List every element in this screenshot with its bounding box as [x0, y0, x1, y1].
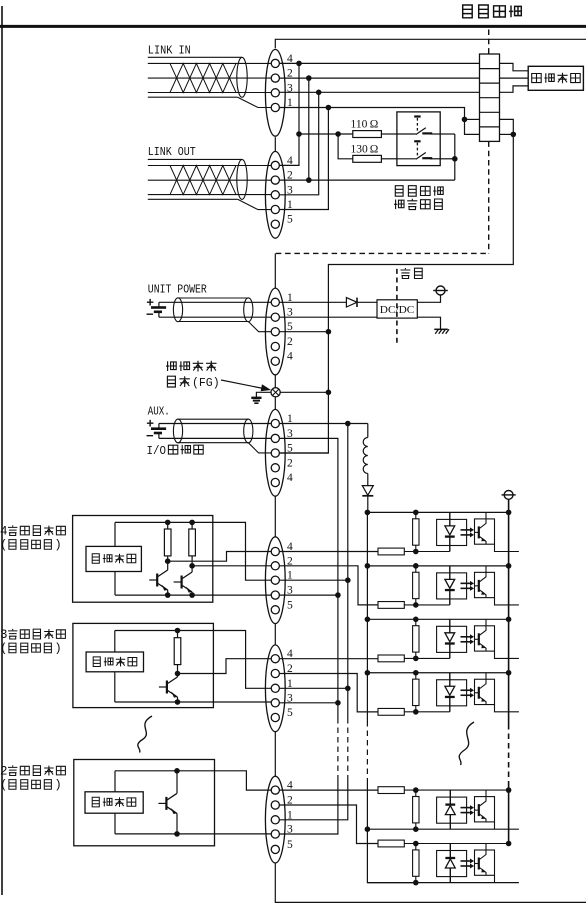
svg-text:2: 2: [0, 764, 8, 778]
optocoupler X3 light arrows: [461, 689, 471, 691]
optocoupler X0 phototransistor box: [475, 519, 495, 544]
AUX pin 3: [271, 434, 279, 442]
optocoupler X1 LED box: [437, 573, 467, 599]
sensor1 output1 wire (to pin4): [168, 552, 272, 562]
LINK IN pin 4: [271, 59, 279, 67]
svg-text:3: 3: [0, 628, 8, 642]
dashed boundary horizontal: [276, 252, 489, 254]
optocoupler X2 phototransistor box: [475, 626, 495, 651]
AUX connector body: [265, 409, 285, 496]
wire DC/DC out bottom to ground: [417, 317, 440, 329]
wire DA bus pin4: [280, 62, 480, 64]
insulation dashed line 绝缘: [396, 269, 398, 345]
break mark left: [138, 716, 152, 753]
sensor2 I/O pin 1: [271, 684, 279, 692]
emitter stub X0: [495, 544, 519, 551]
wire DB bus pin2: [280, 77, 480, 79]
UNIT POWER connector body: [265, 288, 285, 375]
wire signal row X2: [404, 657, 450, 659]
communication circuit box 通信回路: [528, 66, 583, 90]
transistor Q3: [165, 797, 167, 810]
wire signal row X3: [404, 711, 450, 713]
cable jacket: [178, 297, 248, 299]
wire signal row X0: [404, 551, 450, 553]
input channel Xn+1 bleeder resistor: [415, 844, 417, 883]
sensor3 internal 0V rail: [115, 833, 271, 835]
wire to 130: [338, 134, 353, 159]
svg-text:4: 4: [287, 351, 293, 363]
svg-text:5: 5: [287, 707, 293, 719]
sensor1 I/O pin 1: [271, 576, 279, 584]
sensor3 I/O pin 3: [271, 830, 279, 838]
svg-text:5: 5: [287, 839, 293, 851]
input channel Xn collector rail (bottom): [367, 828, 519, 830]
input channel X1 collector rail: [367, 565, 508, 567]
LINK OUT connector body: [265, 151, 285, 238]
LINK OUT pin 1: [271, 205, 279, 213]
wire AUX pin5: [280, 452, 329, 454]
wire switch common: [440, 133, 455, 135]
optocoupler X3 LED box: [437, 680, 467, 706]
wire sensor1 pin3 to 0V bus: [280, 594, 338, 596]
svg-text:3: 3: [287, 824, 293, 836]
LG terminal symbol: [436, 286, 445, 295]
sensor3 I/O pin 1: [271, 816, 279, 824]
terminating resistor switch box: [397, 112, 440, 166]
UNIT POWER pin 3: [271, 313, 279, 321]
sensor1 output2 wire (to pin2): [192, 565, 271, 567]
cable jacket: [178, 418, 248, 420]
sensor3 outer box: [74, 760, 215, 846]
svg-text:−: −: [146, 308, 154, 323]
input channel X2 collector rail: [367, 618, 508, 620]
sensor2 output wire (to pin4): [178, 659, 272, 674]
optocoupler Xn phototransistor box: [475, 797, 495, 822]
svg-text:5: 5: [287, 599, 293, 611]
LINK IN pin 2: [271, 74, 279, 82]
wire terminal2 to comm: [500, 77, 529, 79]
resistor 130 ohm: [353, 155, 382, 162]
emitter joins bottom rail Xn+1: [494, 875, 496, 882]
svg-text:(: (: [0, 778, 7, 792]
shield drain wire: [248, 322, 271, 332]
AUX pin 5: [271, 449, 279, 457]
resistor 110 ohm: [353, 131, 382, 138]
svg-text:4: 4: [0, 524, 8, 538]
wire sensor3 pin2 to Xn+1: [280, 805, 379, 844]
inductor L1: [367, 424, 369, 438]
sensor1 pull-up resistor R-a: [167, 522, 169, 529]
AUX pin 1: [271, 419, 279, 427]
input channel X3 collector rail: [367, 672, 508, 674]
sensor2 pull-up resistor: [177, 631, 179, 638]
optocoupler Xn+1 LED (mirrored): [449, 844, 451, 859]
wire + conductor: [159, 301, 272, 303]
transistor Q1a: [156, 574, 158, 587]
sensor3 I/O pin 2: [271, 801, 279, 809]
transistor Q2: [166, 681, 168, 694]
optocoupler X1 LED: [449, 566, 451, 580]
input channel X3 bleeder resistor: [415, 673, 417, 712]
optocoupler Xn phototransistor: [478, 804, 480, 816]
optocoupler Xn+1 light arrows: [461, 860, 471, 862]
input channel X1 series resistor: [378, 602, 404, 609]
earth ground symbol: [434, 328, 448, 330]
检测回路 box sensor1: [86, 546, 141, 571]
transistor Q1b: [181, 576, 183, 589]
wire sensor2 pin4 to X2: [280, 658, 379, 660]
wire pin3 to DC/DC: [280, 316, 378, 318]
svg-text:): ): [54, 642, 61, 656]
bus 24V vertical (AUX pin1): [347, 424, 349, 719]
optocoupler Xn+1 phototransistor: [478, 858, 480, 870]
sensor3 internal supply rail: [115, 771, 271, 790]
emitter stub X2: [495, 651, 519, 658]
bottom rule: [275, 901, 586, 903]
FG mounting bolt symbol: [271, 388, 280, 397]
dashed boundary vertical: [488, 141, 490, 253]
input channel Xn series resistor: [378, 787, 404, 794]
svg-text:5: 5: [287, 214, 293, 226]
wire pin5 to FG bus: [280, 331, 329, 333]
sensor1 internal 0V rail: [115, 594, 271, 596]
wire bolt to ground: [256, 392, 271, 397]
emitter stub X3: [495, 705, 519, 712]
sensor1 I/O pin 2: [271, 562, 279, 570]
diode D2: [362, 486, 373, 496]
optocoupler X2 light arrows: [461, 636, 471, 638]
svg-text:130: 130: [351, 143, 369, 155]
sensor3 I/O pin 4: [271, 786, 279, 794]
input channel X2 bleeder resistor: [415, 619, 417, 658]
svg-text:(: (: [0, 538, 7, 552]
svg-text:4: 4: [287, 472, 293, 484]
optocoupler Xn LED box: [437, 797, 467, 823]
UNIT POWER pin 2: [271, 342, 279, 350]
input channel X0 collector rail: [367, 511, 508, 513]
svg-text:LINK IN: LINK IN: [148, 45, 191, 58]
wire termination top: [299, 133, 353, 135]
wire terminal1 to comm: [500, 63, 529, 70]
wire AUX pin3 0V: [280, 438, 338, 441]
sensor1 I/O connector body: [265, 537, 285, 624]
svg-text:Ω: Ω: [370, 143, 379, 155]
sensor2 I/O pin 3: [271, 699, 279, 707]
svg-text:LINK OUT: LINK OUT: [148, 146, 196, 159]
wire terminal5/6 to FG bus: [280, 119, 514, 453]
optocoupler X3 phototransistor: [478, 687, 480, 699]
wire - conductor: [159, 316, 272, 318]
wire sensor1 pin1 to 24V bus: [280, 579, 348, 581]
svg-text:2: 2: [287, 336, 293, 348]
sensor1 I/O pin 5: [271, 606, 279, 614]
optocoupler X0 light arrows: [461, 529, 471, 531]
input channel X3 series resistor: [378, 708, 404, 715]
shield drain wire: [248, 443, 271, 453]
input channel Xn bleeder resistor: [415, 790, 417, 829]
LINK OUT pin 3: [271, 191, 279, 199]
optocoupler X0 LED box: [437, 519, 467, 545]
label 模块安装/螺栓(FG): [166, 361, 217, 372]
input channel X2 series resistor: [378, 655, 404, 662]
检测回路 box sensor3: [85, 792, 143, 813]
bus LED supply vertical: [366, 512, 368, 721]
optocoupler X0 LED: [449, 512, 451, 526]
svg-text:Ω: Ω: [370, 119, 379, 131]
optocoupler X3 LED: [449, 673, 451, 687]
sensor1 I/O pin 3: [271, 591, 279, 599]
input channel X0 bleeder resistor: [415, 512, 417, 551]
sensor2 internal 0V rail: [115, 701, 271, 703]
LINK IN pin 3: [271, 89, 279, 97]
svg-text:(FG): (FG): [192, 377, 220, 390]
optocoupler X1 light arrows: [461, 582, 471, 584]
page left border: [1, 6, 3, 895]
optocoupler X2 phototransistor: [478, 633, 480, 645]
wire terminal3 to comm: [500, 86, 529, 92]
optocoupler Xn+1 LED box: [437, 851, 467, 877]
检测回路 box sensor2: [86, 652, 143, 672]
top heavy rule: [0, 25, 586, 28]
terminal block stack: [480, 54, 500, 141]
svg-text:): ): [54, 538, 61, 552]
wire SLD into terminal 5: [465, 118, 480, 120]
wire AUX pin1 24V: [280, 423, 368, 425]
sensor2 I/O pin 4: [271, 655, 279, 663]
wire signal row X1: [404, 604, 450, 606]
svg-text:): ): [54, 778, 61, 792]
LINK IN twisted pair cable: [148, 56, 242, 58]
svg-text:(: (: [0, 642, 7, 656]
input channel Xn+1 collector rail (bottom): [367, 882, 519, 884]
emitter stub X1: [495, 598, 519, 605]
dashed boundary vertical top: [488, 30, 490, 55]
sensor3 I/O connector body: [265, 776, 285, 863]
diode D1: [346, 298, 357, 307]
break mark right: [459, 722, 474, 765]
sensor3 I/O pin 5: [271, 845, 279, 853]
bus 0V vertical (AUX pin3): [337, 441, 339, 718]
UNIT POWER pin 4: [271, 357, 279, 365]
wire sensor3 pin4 to Xn: [280, 789, 379, 791]
sensor1 outer box: [73, 516, 213, 603]
svg-text:−: −: [146, 429, 154, 444]
wire SLD bus pin1: [280, 108, 480, 135]
LINK OUT twisted pair cable: [148, 158, 242, 160]
label 终端电阻/切换开关: [395, 186, 443, 197]
switch 2: [414, 140, 420, 142]
wire - conductor: [159, 437, 272, 439]
sensor2 outer box: [73, 623, 214, 707]
sensor1 internal supply rail: [115, 522, 271, 580]
svg-text:110: 110: [351, 119, 368, 131]
wire + conductor: [159, 423, 272, 425]
sensor2 I/O pin 2: [271, 669, 279, 677]
optocoupler X2 LED box: [437, 626, 467, 652]
UNIT POWER pin 5: [271, 328, 279, 336]
wire sensor2 pin3 to 0V bus: [280, 702, 338, 704]
sensor2 internal supply rail: [115, 631, 271, 689]
input channel Xn+1 series resistor: [378, 840, 404, 847]
wire sensor1 pin2 to X1: [280, 566, 379, 605]
svg-text:UNIT POWER: UNIT POWER: [148, 284, 207, 297]
LINK IN pin 1: [271, 103, 279, 111]
wire shield top: [275, 39, 586, 48]
AUX pin 2: [271, 464, 279, 472]
LINK OUT pin 2: [271, 176, 279, 184]
optocoupler Xn light arrows: [461, 807, 471, 809]
LINK OUT pin 5: [271, 220, 279, 228]
switch 1: [414, 115, 420, 117]
label 外部连接 (external connection): [463, 5, 522, 18]
wire DC/DC out top to LG terminal: [417, 295, 440, 302]
DC/DC converter box: [377, 300, 417, 318]
svg-text:1: 1: [287, 809, 293, 821]
arrow to FG bolt: [221, 380, 264, 389]
optocoupler X1 phototransistor box: [475, 572, 495, 597]
svg-text:2: 2: [287, 457, 293, 469]
wire pin1 to DC/DC: [280, 301, 378, 303]
wire sensor2 pin2 to X3: [280, 674, 379, 712]
optocoupler Xn LED (mirrored): [449, 790, 451, 805]
LINK IN connector body: [265, 49, 285, 136]
connector spine: [274, 137, 276, 151]
chassis ground symbol: [251, 397, 261, 399]
wire sensor1 pin4 to X0: [280, 551, 379, 553]
input channel X0 series resistor: [378, 548, 404, 555]
24G terminal symbol: [504, 491, 513, 500]
optocoupler X0 phototransistor: [478, 526, 480, 538]
wire bolt to FG bus: [280, 391, 328, 393]
emitter joins bottom rail Xn: [494, 822, 496, 829]
input channel X1 bleeder resistor: [415, 566, 417, 605]
LINK OUT pin 4: [271, 161, 279, 169]
optocoupler X3 phototransistor box: [475, 679, 495, 704]
sensor1 pull-up resistor R-b: [191, 522, 193, 529]
optocoupler X2 LED: [449, 619, 451, 633]
sensor1 I/O pin 4: [271, 547, 279, 555]
sensor2 I/O pin 5: [271, 713, 279, 721]
optocoupler Xn+1 phototransistor box: [475, 850, 495, 875]
sensor2 I/O connector body: [265, 645, 285, 732]
svg-text:I/O: I/O: [147, 445, 167, 458]
optocoupler X1 phototransistor: [478, 580, 480, 592]
UNIT POWER pin 1: [271, 298, 279, 306]
wire sensor2 pin1 to 24V bus: [280, 687, 348, 689]
AUX pin 4: [271, 478, 279, 486]
wire DG bus pin3: [280, 91, 480, 93]
